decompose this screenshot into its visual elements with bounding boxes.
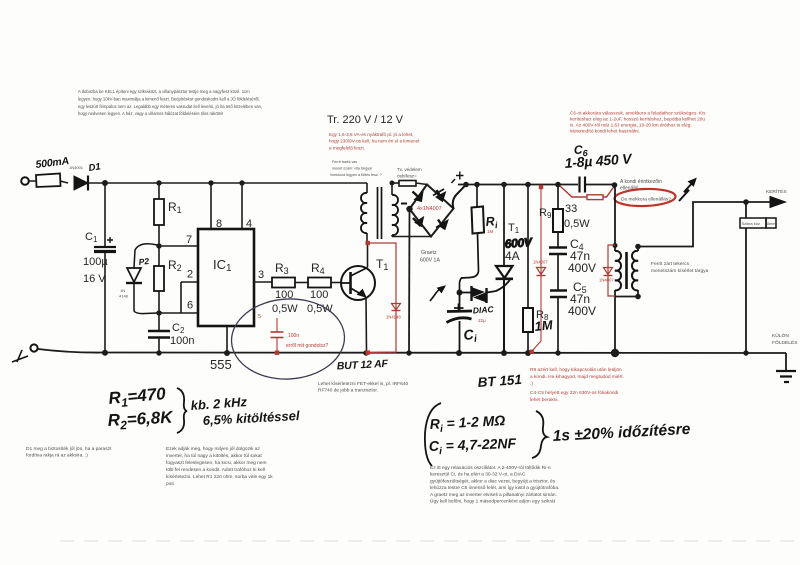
label C5 47n 400V: [568, 280, 596, 318]
label 555: [210, 357, 232, 372]
svg-text:100: 100: [310, 289, 328, 301]
wire secondary bottom to bridge: [392, 236, 431, 238]
node junction bottom spark gap: [743, 350, 748, 355]
wire pin 8: [210, 183, 212, 229]
wire pin 4: [241, 183, 243, 229]
note a kondi erintkezoin: [620, 179, 671, 203]
svg-text:Motorindító kondi lehet haszná: Motorindító kondi lehet használni.: [570, 129, 640, 134]
note red R8 azert kell text: [530, 367, 624, 403]
label Ri handwritten: [485, 214, 498, 231]
wire HV to output transformer: [612, 182, 618, 248]
wire pin7: [159, 245, 198, 247]
label T1 print: [508, 222, 520, 235]
node junction input: [102, 180, 108, 186]
label R2: [168, 258, 182, 273]
lightning spark arrow: [679, 179, 696, 202]
note red C6 sizing text: [570, 111, 706, 134]
svg-text:1M: 1M: [487, 229, 494, 234]
transformer output primary winding: [615, 245, 621, 352]
wire T1 collector: [367, 243, 369, 268]
diode P2 1N4148: [126, 244, 157, 314]
node junction bottom C2: [156, 350, 161, 355]
pin number 8: [216, 218, 222, 230]
svg-text:keresztül Ci, és ha eléri a 30: keresztül Ci, és ha eléri a 30-32 V-ot, …: [430, 472, 526, 478]
svg-text:Úgy kell belőni, hogy 1 másodp: Úgy kell belőni, hogy 1 másodpercenként …: [430, 498, 556, 505]
capacitor C5: [550, 291, 567, 353]
svg-text:menet szám: vita tárgya!: menet szám: vita tárgya!: [332, 167, 372, 171]
svg-text:Graetz: Graetz: [421, 250, 437, 256]
capacitor C4: [549, 248, 567, 291]
arrow fence output: [770, 197, 786, 208]
note kb 2 kHz handwritten: [190, 394, 248, 413]
wire T1 emitter: [365, 297, 368, 352]
svg-text:555: 555: [210, 357, 232, 372]
node junction bridge plus: [463, 182, 469, 188]
wire pin 3: [254, 281, 272, 283]
wire pins 2 and 6 link: [159, 282, 198, 313]
svg-text:Ferrit fazék vas: Ferrit fazék vas: [332, 160, 357, 164]
terminal input plus: [21, 177, 29, 185]
svg-text:1N4007: 1N4007: [533, 260, 548, 265]
pin number 4: [246, 218, 252, 230]
transformer output secondary winding: [615, 247, 638, 297]
svg-text:C6-ot akkorára válasszuk, amek: C6-ot akkorára válasszuk, amekkora a fel…: [570, 111, 706, 116]
ground marker hand-drawn left: [12, 350, 28, 362]
label R1: [168, 200, 182, 215]
note ferrit zart tekercs: [651, 261, 709, 274]
svg-text:gyújtófeszültségét, akkor a di: gyújtófeszültségét, akkor a diac vezet, …: [430, 478, 556, 484]
node junction diac Ci: [457, 290, 463, 296]
wire fence output: [638, 202, 771, 247]
node junction bottom pin1: [224, 350, 230, 356]
svg-text:menetszám kísérlet tárgya: menetszám kísérlet tárgya: [651, 268, 709, 274]
svg-text::): :): [530, 381, 533, 387]
value 100n red: [288, 333, 299, 339]
label P2 handwritten: [138, 256, 150, 267]
svg-text:BT 151: BT 151: [477, 372, 522, 390]
label T1: [376, 257, 388, 272]
node junction R9 top: [555, 182, 561, 188]
capacitor Ci: [447, 293, 473, 353]
svg-text:inverter, ha túl nagy a kitölt: inverter, ha túl nagy a kitöltés, akkor …: [166, 453, 262, 459]
svg-text:a megfelelő feszt.: a megfelelő feszt.: [329, 145, 365, 150]
spark gap box: [740, 218, 776, 228]
label D1 handwritten: [88, 161, 102, 174]
svg-text:Ferrit zárt tekercs: Ferrit zárt tekercs: [651, 261, 690, 267]
ellipse annotation around pin5: [229, 296, 346, 382]
wire pin 1: [226, 326, 228, 353]
note ferrit fazek vas: [330, 160, 382, 177]
diac D2: [460, 286, 487, 303]
label C4 47n 400V: [568, 237, 596, 275]
svg-text:D1: D1: [88, 161, 102, 174]
svg-text:4A: 4A: [505, 249, 520, 263]
svg-text:A dobozba be KELL építeni egy: A dobozba be KELL építeni egy szikraközt…: [78, 89, 250, 94]
svg-text:kísérletezni. Lehet R1 220 ohm: kísérletezni. Lehet R1 220 ohm, sorba ve…: [166, 474, 273, 480]
svg-text:400V: 400V: [568, 304, 596, 318]
label 1N4001: [69, 165, 84, 170]
svg-text:a kondi. Ha kihagyod, majd meg: a kondi. Ha kihagyod, majd megtudod miér…: [530, 374, 624, 380]
svg-text:fordítva rakja rá az akksira.: fordítva rakja rá az akksira. :): [26, 453, 88, 459]
resistor R4: [308, 278, 331, 288]
node junction secondary out top: [635, 244, 641, 250]
arrow annotation to diac node: [430, 286, 445, 301]
svg-text:KÜLÖN: KÜLÖN: [772, 332, 789, 339]
capacitor C1: [94, 183, 116, 352]
wire bridge plus diagonal up: [453, 185, 466, 209]
label 1N4148 red: [386, 315, 401, 320]
svg-text:Egy 1,6-3,5 VA-es nyáktrafó pl: Egy 1,6-3,5 VA-es nyáktrafó pl. jó a leh…: [329, 132, 413, 137]
formula R2=6,8K handwritten: [107, 408, 175, 433]
svg-text:1N4148: 1N4148: [386, 315, 401, 320]
svg-text:poti.: poti.: [166, 481, 175, 487]
svg-text:kerítéshez elég az 1-2uF, hoss: kerítéshez elég az 1-2uF, hosszú kerítés…: [570, 117, 705, 122]
node junction bottom C1: [102, 350, 108, 356]
svg-text:0,5W: 0,5W: [564, 218, 590, 230]
svg-text:A kondi érintkezőin: A kondi érintkezőin: [620, 179, 662, 185]
svg-text:RF740 de jobb a tranzisztor.: RF740 de jobb a tranzisztor.: [318, 388, 378, 394]
svg-text:hogy nedvesen legyen. A ház, v: hogy nedvesen legyen. A ház, vagy a vill…: [78, 111, 223, 116]
resistor R2: [154, 246, 164, 313]
diode bridge bottom-right: [436, 220, 448, 230]
svg-text:Ez itt egy relaxációs oszcillá: Ez itt egy relaxációs oszcillátor. A 2-4…: [430, 465, 551, 471]
value 4x1N4007 red: [417, 206, 442, 212]
label 1N4007 red output: [599, 278, 614, 283]
label C1 plus: [107, 237, 113, 243]
svg-text:6: 6: [187, 300, 193, 312]
pin number 2: [187, 269, 193, 281]
snubber red box around T1: [366, 241, 397, 355]
svg-text:R8 azért kell, hogy kikapcsolá: R8 azért kell, hogy kikapcsolás után leü…: [530, 367, 622, 373]
node junction R8 top: [525, 182, 531, 188]
note D1 biztositek text: [26, 446, 112, 459]
diode D1: [74, 176, 88, 191]
resistor R9: [553, 185, 563, 248]
label Tr 220V/12V: [327, 114, 404, 126]
svg-text:1N4007: 1N4007: [599, 278, 614, 283]
node junction bottom Ci: [456, 350, 462, 356]
label C2: [172, 322, 185, 335]
svg-text:D1 meg a biztosíték jól jön, h: D1 meg a biztosíték jól jön, ha a parasz…: [26, 446, 112, 452]
wire R3 to R4: [295, 282, 308, 284]
brace left of Ri Ci formulas: [425, 403, 441, 466]
value C6 1-8u 450V handwritten: [564, 150, 634, 171]
node junction R1 top: [156, 180, 161, 185]
wire HV top rail: [458, 184, 615, 186]
svg-text:3: 3: [258, 269, 264, 281]
node junction bottom T1 emitter: [363, 350, 368, 355]
svg-text:100µ: 100µ: [83, 256, 108, 268]
svg-text:ösbífesz=: ösbífesz=: [397, 174, 417, 179]
value 16V: [83, 273, 106, 285]
svg-text:KERÍTÉS: KERÍTÉS: [766, 188, 787, 195]
note kitoltessel handwritten: [202, 408, 300, 428]
svg-text:8: 8: [216, 218, 222, 230]
value 22u red: [478, 318, 486, 323]
node junction pin4 top: [239, 180, 244, 185]
note errol mit gondolsz red: [286, 343, 328, 349]
value 100u: [83, 256, 108, 268]
label C6 handwritten: [574, 142, 589, 158]
transformer Tr core: [378, 187, 382, 239]
svg-text:1N: 1N: [120, 288, 125, 293]
svg-text:tölti fel rendesen a kondit. A: tölti fel rendesen a kondit. Adott trafó…: [166, 467, 265, 473]
brace right of R1 R2: [177, 388, 187, 433]
label IC1: [213, 257, 232, 274]
capacitor C6: [580, 177, 586, 193]
value 4A print: [505, 249, 520, 263]
label R8 print: [536, 309, 549, 322]
wire fuse to bridge top: [416, 183, 427, 185]
node bridge minus corner: [406, 206, 412, 212]
note KERITES: [766, 188, 787, 195]
node junction bottom C5: [555, 350, 560, 355]
svg-text:Lehet kísérletezni FET-ekkel i: Lehet kísérletezni FET-ekkel is, pl. IRF…: [318, 381, 408, 387]
terminal input minus: [30, 344, 37, 351]
resistor R8: [523, 185, 533, 353]
svg-text:100n: 100n: [170, 335, 194, 347]
note top-left grounding warning text: [78, 89, 262, 116]
svg-text:Tv. védelem: Tv. védelem: [397, 167, 422, 172]
resistor red bypass across C6: [560, 186, 614, 200]
svg-text:erről mit gondolsz?: erről mit gondolsz?: [286, 343, 328, 349]
node junction thyristor top: [501, 182, 507, 188]
node junction Ri top: [474, 182, 480, 188]
svg-text:4148: 4148: [119, 294, 129, 299]
brace right of Ri Ci formulas: [532, 411, 547, 458]
svg-text:1N4001: 1N4001: [69, 165, 84, 170]
transformer Tr primary winding: [361, 183, 367, 243]
value 1M handwritten: [534, 317, 555, 334]
note KULON FOLDELES: [772, 332, 798, 346]
svg-text:33: 33: [565, 203, 577, 215]
svg-text:600V 1A: 600V 1A: [420, 258, 440, 264]
label C1: [85, 231, 98, 244]
value 33 0,5W: [564, 203, 590, 230]
pin number 6: [187, 300, 193, 312]
node junction pin8 top: [208, 180, 213, 185]
svg-text:fogyaszt feleslegesen, ha kics: fogyaszt feleslegesen, ha kicsi, akkor m…: [166, 460, 267, 466]
svg-text:100n: 100n: [288, 333, 299, 339]
note 1s 20% idozitesre handwritten: [552, 421, 691, 445]
note ezek adjak meg text: [166, 446, 273, 487]
label DIAC handwritten: [472, 304, 494, 315]
label BT151 handwritten: [477, 372, 522, 390]
wire bottom rail: [38, 349, 786, 353]
svg-text:A graetz meg az inverter elvis: A graetz meg az inverter elviseli a pill…: [430, 492, 557, 498]
svg-text:lehet berakni.: lehet berakni.: [530, 397, 559, 403]
svg-text:hogy 230/9V-os kell, ha nem ér: hogy 230/9V-os kell, ha nem éri el a kim…: [329, 139, 420, 144]
svg-text:1M: 1M: [534, 317, 555, 334]
ground symbol earth right: [776, 371, 796, 382]
wire red pin5 branch: [258, 314, 284, 355]
label minus sign: [401, 203, 407, 205]
label 500mA handwritten: [35, 155, 70, 171]
pin number 7: [186, 234, 192, 246]
diode red 1N4007 output snubber: [604, 245, 616, 296]
label 1N 4148 small: [119, 288, 129, 299]
resistor Ri: [460, 185, 485, 293]
label 1N4007 red mid: [533, 260, 548, 265]
node junction bottom thyristor: [501, 350, 507, 356]
svg-text:egy leszúrt fémpálca nem az. L: egy leszúrt fémpálca nem az. Legalább eg…: [78, 104, 262, 109]
fuse Tv protection: [399, 181, 416, 187]
diode bridge top-right: [433, 189, 446, 202]
svg-text:Szikra köz: Szikra köz: [742, 221, 760, 226]
svg-text:Tr. 220 V / 12 V: Tr. 220 V / 12 V: [327, 114, 404, 126]
label Ci plus handwritten: [454, 304, 464, 313]
label R3: [275, 261, 289, 276]
transformer output core: [625, 252, 628, 289]
svg-text:C4-C5 helyett egy 22n 630V-os: C4-C5 helyett egy 22n 630V-os fóliakondi: [530, 390, 618, 396]
wire R4 to T1 base: [331, 282, 342, 284]
capacitor C2: [148, 313, 170, 352]
diode red 1N4148 across T1: [392, 304, 401, 311]
label Ci handwritten: [463, 326, 478, 346]
fuse F1: [36, 174, 61, 188]
svg-text:DIAC: DIAC: [472, 304, 494, 315]
node junction spark gap top: [743, 199, 749, 205]
note FET text: [318, 381, 408, 394]
svg-text:4x1N4007: 4x1N4007: [417, 206, 442, 212]
wire ground drop right: [785, 353, 787, 371]
svg-text:is. Az 400V-ról már 1,6J energ: is. Az 400V-ról már 1,6J energia, 10-20 …: [570, 123, 692, 128]
note relaxacios oszcillator text: [430, 465, 559, 505]
resistor R3: [272, 278, 295, 288]
value 600V handwritten bold: [504, 235, 533, 251]
svg-text:22µ: 22µ: [478, 318, 486, 323]
label R9 print: [539, 207, 552, 220]
pin number 3: [258, 269, 264, 281]
svg-text:legyen, hogy 10kV-ban maximálj: legyen, hogy 10kV-ban maximálja a kimenő…: [78, 96, 260, 101]
label szikra koz: [742, 221, 776, 226]
svg-text:8mm: 8mm: [767, 222, 775, 226]
label R4: [311, 261, 325, 276]
formula R1=470 handwritten: [108, 384, 168, 411]
svg-text:P2: P2: [138, 256, 150, 267]
value 100n: [170, 335, 194, 347]
svg-text:16 V: 16 V: [83, 273, 106, 285]
value R3 100: [275, 289, 293, 301]
transistor T1 BUT12AF: [341, 266, 375, 300]
rectifier bridge Graetz frame: [410, 185, 454, 237]
svg-text:5: 5: [258, 314, 261, 320]
formula Ri Ci handwritten: [429, 412, 517, 457]
label plus hand-drawn: [452, 172, 464, 184]
op-amp IC1 555 timer box: [198, 229, 254, 326]
resistor R1: [154, 183, 164, 246]
svg-text:4: 4: [246, 218, 252, 230]
node junction pin6 R2: [156, 310, 161, 315]
wire bridge minus down: [408, 209, 411, 353]
svg-text:7: 7: [186, 234, 192, 246]
label BUT12AF handwritten: [337, 358, 389, 373]
thyristor T1 BT151: [487, 185, 513, 353]
svg-text:0,5W: 0,5W: [272, 303, 298, 315]
ellipse red mekkora ellenallas: [614, 188, 676, 207]
note Tv vedelem: [397, 167, 422, 179]
diode bridge bottom-left: [413, 217, 424, 227]
transformer Tr secondary winding: [392, 183, 398, 237]
wire spark gap drop: [745, 202, 747, 218]
svg-text:2: 2: [187, 269, 193, 281]
diode red 1N4007 mid: [530, 185, 546, 354]
note red transformer text: [329, 132, 420, 150]
wire spark gap to ground rail: [745, 228, 747, 353]
node junction secondary out bottom: [635, 294, 641, 300]
wire secondary top to fuse: [392, 182, 399, 184]
svg-text:lehúzza testre C6 innenső felé: lehúzza testre C6 innenső felét, ami így…: [430, 485, 559, 491]
node junction bottom R8: [525, 350, 531, 356]
node junction bottom bridge minus: [406, 350, 411, 355]
value R4 100: [310, 289, 328, 301]
node junction secondary top: [390, 181, 395, 186]
svg-text:!mekkora legyen a töltés fesz.: !mekkora legyen a töltés fesz. ?: [330, 173, 382, 177]
svg-text:FÖLDELÉS: FÖLDELÉS: [772, 339, 798, 346]
wire top rail 12V: [29, 181, 367, 183]
scan artifact bottom line: [60, 540, 795, 542]
svg-text:400V: 400V: [568, 261, 596, 275]
node junction bottom output transformer: [611, 349, 619, 357]
svg-text:Ezek adják meg, hogy milyen jó: Ezek adják meg, hogy milyen jól dolgozik…: [166, 446, 260, 452]
svg-text:De mekkora ellenállás?: De mekkora ellenállás?: [621, 197, 671, 203]
label Graetz: [420, 250, 440, 264]
value R3 0,5W: [272, 303, 298, 315]
value R4 0,5W: [307, 303, 333, 315]
diode bridge top-left: [413, 192, 424, 202]
node junction pin7: [156, 243, 161, 248]
value 1M red: [487, 229, 494, 234]
